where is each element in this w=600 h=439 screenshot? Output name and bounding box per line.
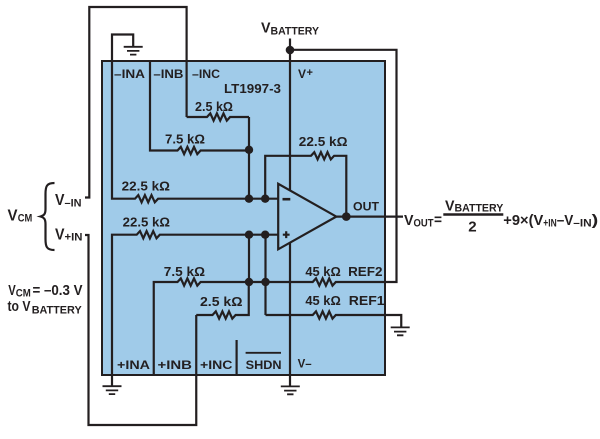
resistor 45k REF2 bbox=[266, 278, 386, 285]
svg-text:V: V bbox=[55, 192, 65, 209]
svg-text:BATTERY: BATTERY bbox=[455, 202, 504, 214]
svg-text:REF1: REF1 bbox=[349, 293, 385, 308]
ground at V- bbox=[281, 386, 300, 394]
junction dot 7.5k bottom b bbox=[261, 278, 269, 286]
pin SHDN separator bbox=[236, 340, 238, 375]
wire V- supply from op-amp to ground bbox=[289, 243, 291, 386]
svg-text:+: + bbox=[307, 67, 313, 79]
svg-text:+INC: +INC bbox=[200, 358, 233, 372]
junction dot row2 a bbox=[245, 231, 253, 239]
svg-text:+INB: +INB bbox=[158, 358, 193, 372]
svg-text:V: V bbox=[298, 67, 306, 81]
junction dot row1 b bbox=[261, 195, 269, 203]
resistor 7.5k top (-INB) bbox=[150, 61, 249, 154]
svg-text:2: 2 bbox=[468, 219, 476, 236]
wire V+ supply into op-amp bbox=[289, 50, 291, 191]
svg-text:+IN: +IN bbox=[543, 218, 556, 230]
junction dot 2.5k/7.5k top bbox=[245, 146, 253, 154]
junction dot 7.5k bottom a bbox=[245, 278, 253, 286]
SHDN overline bbox=[246, 352, 281, 354]
op-amp minus input sign bbox=[283, 198, 291, 201]
junction dot row2 b bbox=[261, 231, 269, 239]
svg-text:2.5 kΩ: 2.5 kΩ bbox=[195, 99, 233, 114]
svg-text:= –0.3 V: = –0.3 V bbox=[33, 282, 83, 299]
svg-text:V: V bbox=[261, 19, 271, 36]
wire branch x=265.5 to REF1 bbox=[264, 235, 266, 315]
junction dot VBATTERY bbox=[286, 46, 295, 55]
svg-text:to V: to V bbox=[8, 298, 31, 315]
svg-text:V: V bbox=[404, 212, 414, 229]
equation fraction bar bbox=[443, 213, 503, 215]
svg-text:–V: –V bbox=[557, 212, 574, 229]
op-amp plus input sign bbox=[283, 231, 290, 238]
svg-text:7.5 kΩ: 7.5 kΩ bbox=[165, 132, 205, 147]
svg-text:–IN: –IN bbox=[573, 218, 591, 230]
svg-text:45 kΩ: 45 kΩ bbox=[305, 264, 340, 279]
wire VBATTERY stem and rail to REF2 bbox=[290, 39, 397, 283]
junction dot OUT bbox=[342, 212, 351, 221]
svg-text:): ) bbox=[592, 212, 599, 229]
svg-text:OUT: OUT bbox=[353, 200, 380, 214]
svg-text:+INA: +INA bbox=[117, 358, 150, 372]
resistor 2.5k bottom (+INC) bbox=[196, 282, 249, 319]
ground at +INA bbox=[111, 375, 113, 386]
svg-text:45 kΩ: 45 kΩ bbox=[305, 293, 340, 308]
wire V+IN to +INC pin (outer bottom loop) bbox=[85, 235, 196, 425]
svg-text:–INC: –INC bbox=[192, 67, 220, 81]
resistor 45k REF1 bbox=[266, 311, 386, 318]
svg-text:7.5 kΩ: 7.5 kΩ bbox=[164, 264, 205, 279]
svg-text:22.5 kΩ: 22.5 kΩ bbox=[123, 215, 170, 230]
svg-text:=: = bbox=[434, 212, 442, 229]
svg-text:BATTERY: BATTERY bbox=[271, 26, 320, 38]
svg-text:CM: CM bbox=[18, 213, 33, 225]
wire V-IN to -INC pin (outer top loop) bbox=[85, 7, 187, 198]
resistor 22.5k row2 (+INA to non-inverting node) bbox=[112, 231, 278, 375]
svg-text:V–: V– bbox=[298, 357, 312, 371]
svg-text:22.5 kΩ: 22.5 kΩ bbox=[122, 179, 170, 194]
svg-text:BATTERY: BATTERY bbox=[32, 304, 83, 316]
svg-text:OUT: OUT bbox=[414, 218, 434, 230]
svg-text:–INB: –INB bbox=[153, 67, 183, 81]
op-amp U1 bbox=[278, 184, 336, 250]
svg-text:LT1997-3: LT1997-3 bbox=[224, 81, 281, 96]
svg-text:SHDN: SHDN bbox=[246, 358, 282, 372]
svg-text:–IN: –IN bbox=[65, 198, 82, 210]
svg-text:V: V bbox=[8, 282, 16, 299]
ground at -INA (elbow) bbox=[112, 35, 133, 62]
resistor 7.5k bottom (+INB) bbox=[154, 278, 266, 375]
svg-text:22.5 kΩ: 22.5 kΩ bbox=[299, 134, 348, 149]
junction dot row1 a bbox=[245, 195, 253, 203]
svg-text:2.5 kΩ: 2.5 kΩ bbox=[200, 294, 243, 309]
resistor 22.5k feedback bbox=[265, 152, 346, 216]
svg-text:V: V bbox=[8, 207, 18, 224]
IC body LT1997-3 bbox=[102, 61, 385, 375]
svg-text:V: V bbox=[55, 226, 65, 243]
brace VCM bbox=[41, 183, 55, 250]
ground at REF1 bbox=[391, 327, 410, 335]
svg-text:V: V bbox=[445, 198, 455, 215]
wire branch x=249 top bbox=[248, 117, 250, 199]
svg-text:REF2: REF2 bbox=[348, 264, 382, 279]
svg-text:+IN: +IN bbox=[65, 232, 83, 244]
resistor 2.5k top (-INC) bbox=[187, 113, 249, 120]
resistor 22.5k row1 (-INA to inverting node) bbox=[112, 61, 278, 202]
wire REF1 to ground bbox=[385, 315, 401, 327]
svg-text:–INA: –INA bbox=[114, 67, 145, 81]
wire branch x=249 bottom bbox=[248, 235, 250, 282]
svg-text:+9×(V: +9×(V bbox=[503, 212, 543, 229]
wire OUT bbox=[336, 216, 403, 218]
